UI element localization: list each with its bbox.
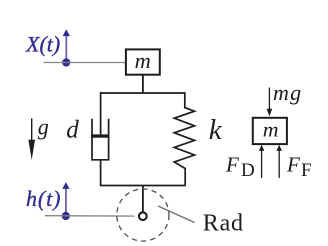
spring k [174,93,194,186]
node X(t) dot [62,58,70,66]
svg-text:F: F [301,160,312,181]
svg-text:F: F [286,153,300,177]
arrow F_D [259,145,264,178]
svg-text:g: g [38,115,49,140]
wire frame to wheel pin [142,186,144,212]
arrow g [28,118,35,160]
damper rod top [100,92,102,135]
wire h(t) to wheel pin [45,215,135,217]
svg-text:X(t): X(t) [25,32,60,57]
svg-text:m: m [135,48,151,73]
arrow mg [267,88,273,117]
frame top wire [100,92,186,94]
svg-text:F: F [225,153,239,177]
node h(t) dot [62,212,70,220]
FBD mass box m [253,118,287,145]
svg-text:k: k [209,114,223,146]
svg-text:mg: mg [273,80,302,105]
svg-text:m: m [263,118,279,142]
wheel dashed circle [117,189,169,241]
wire mass to frame [142,75,144,93]
svg-text:d: d [66,117,79,144]
damper rod bottom [100,160,102,186]
svg-text:h(t): h(t) [26,186,61,211]
arrow X(t) [63,29,70,62]
frame bottom wire [100,185,186,187]
arrow h(t) [62,182,69,216]
wire X(t) to mass [44,62,126,64]
wheel pin joint [139,212,147,220]
label F_D [225,153,255,182]
arrow F_F [277,145,282,178]
label F_F [286,153,312,182]
Rad pointer line [158,206,195,223]
mass box m [126,48,160,75]
damper d cylinder [91,119,109,160]
svg-text:Rad: Rad [203,211,244,237]
svg-text:D: D [241,160,255,181]
